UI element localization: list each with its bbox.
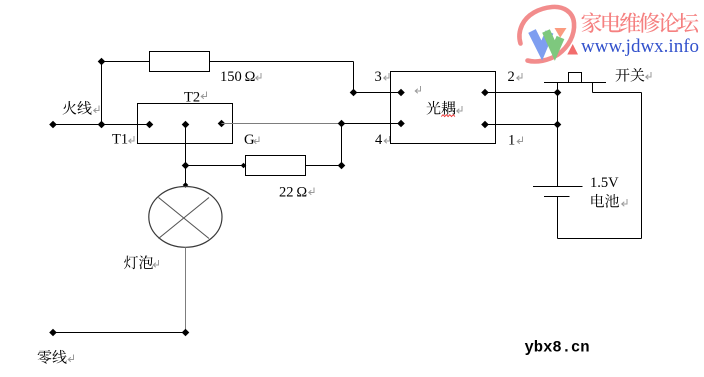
- lamp cross stroke 2: [159, 198, 210, 239]
- wire elbow down to pin3 row: [353, 62, 355, 93]
- optocoupler U1 body: [391, 72, 496, 144]
- spellcheck squiggle under optocoupler: [441, 115, 455, 117]
- wire to R1 left: [102, 61, 150, 63]
- resistor R2 22ohm body: [246, 156, 306, 176]
- label bulb: [124, 255, 153, 269]
- logo red triangle: [567, 44, 578, 55]
- battery BT1 negative plate: [544, 196, 570, 198]
- lamp bulb outline: [149, 187, 222, 248]
- triac T2 body: [138, 104, 233, 144]
- wire gate to pin 4: [342, 123, 402, 125]
- pin G terminal: [218, 120, 226, 128]
- svg-text:ybx8.cn: ybx8.cn: [525, 339, 590, 357]
- pilcrow after switch: [646, 72, 651, 79]
- node junction hot/150ohm: [98, 58, 106, 66]
- switch right stub: [592, 83, 594, 93]
- wire battery negative lead: [557, 197, 559, 239]
- pilcrow after T2: [201, 92, 206, 99]
- wire R1 right to elbow: [210, 61, 354, 63]
- node junction battery top: [554, 121, 562, 129]
- pin 4 terminal: [397, 120, 405, 128]
- pilcrow after 4: [384, 136, 389, 143]
- svg-text:4: 4: [375, 132, 383, 148]
- pilcrow after optocoupler: [457, 106, 462, 113]
- label optocoupler: [426, 101, 455, 115]
- wire battery bottom horizontal: [558, 238, 642, 240]
- logo ring swoosh: [519, 7, 574, 62]
- wire gate (gray): [222, 123, 342, 125]
- node junction gate rail: [338, 120, 346, 128]
- wire switch to right rail: [593, 92, 642, 94]
- label neutral-line: [38, 350, 67, 364]
- svg-text:3: 3: [375, 69, 382, 85]
- wire battery positive lead: [557, 93, 559, 187]
- svg-text:www.jdwx.info: www.jdwx.info: [581, 36, 699, 57]
- pin R2 left terminal: [241, 163, 247, 169]
- node junction bulb top: [182, 162, 190, 170]
- pilcrow after 2: [517, 73, 522, 80]
- node junction pin3 elbow: [350, 89, 358, 97]
- pilcrow after battery: [622, 199, 627, 206]
- node junction neutral/bulb: [182, 329, 190, 337]
- wire gate rail vertical: [341, 124, 343, 166]
- svg-text:T1: T1: [112, 132, 128, 148]
- pin T1 terminal: [146, 121, 154, 129]
- label hot-line: [63, 101, 92, 115]
- pilcrow after bulb: [153, 260, 158, 267]
- svg-text:2: 2: [508, 69, 515, 85]
- svg-text:G: G: [244, 132, 255, 148]
- pilcrow after 150ohm: [256, 73, 261, 80]
- wire hot-line left segment: [53, 124, 150, 126]
- svg-text:1.5V: 1.5V: [590, 175, 619, 191]
- logo text jiadian weixiu luntan: [582, 12, 699, 32]
- wire junction to bulb: [185, 166, 187, 188]
- pin 1 terminal: [481, 121, 489, 129]
- wire R2 right: [306, 165, 342, 167]
- node junction hot-line: [98, 121, 106, 129]
- logo W green stroke: [546, 31, 561, 51]
- wire to R2 left: [186, 165, 246, 167]
- wire bulb bottom (gray): [185, 247, 187, 332]
- pilcrow after T1: [129, 136, 134, 143]
- pilcrow after 1: [517, 137, 522, 144]
- svg-text:T2: T2: [184, 90, 200, 106]
- switch left stub: [557, 83, 559, 93]
- svg-text:22 Ω: 22 Ω: [279, 185, 307, 201]
- svg-text:150 Ω: 150 Ω: [220, 69, 256, 85]
- switch SW1 button: [569, 73, 582, 83]
- lamp cross stroke 1: [159, 198, 210, 239]
- logo W blue stroke: [532, 31, 550, 51]
- wire right rail: [641, 93, 643, 239]
- label switch: [616, 68, 645, 82]
- pilcrow after neutral: [68, 355, 73, 362]
- pin 3 terminal: [397, 89, 405, 97]
- label battery: [591, 194, 619, 208]
- pilcrow after G: [254, 137, 259, 144]
- node hot-line left terminal: [49, 121, 57, 129]
- pin T2 main terminal: [182, 121, 190, 129]
- wire pin 1 to battery node: [485, 124, 558, 126]
- node junction R2 right: [338, 162, 346, 170]
- pilcrow after 3: [384, 73, 389, 80]
- switch SW1 bar: [544, 82, 606, 84]
- battery BT1 positive plate: [533, 186, 583, 188]
- wire into optocoupler pin 3: [354, 92, 402, 94]
- pilcrow after 22ohm: [309, 188, 314, 195]
- wire pin 2 to switch node: [485, 92, 558, 94]
- pilcrow after hot-line: [94, 106, 99, 113]
- node neutral left terminal: [49, 329, 57, 337]
- svg-text:1: 1: [508, 133, 515, 149]
- pin 2 terminal: [481, 89, 489, 97]
- pin bulb top terminal: [183, 182, 189, 188]
- node junction switch: [554, 89, 562, 97]
- pilcrow inside U1: [415, 86, 420, 93]
- wire T2 main down: [185, 125, 187, 166]
- logo W orange notch: [555, 28, 567, 38]
- resistor R1 150ohm body: [150, 52, 210, 72]
- wire hot-line riser: [101, 62, 103, 125]
- wire neutral: [53, 332, 186, 334]
